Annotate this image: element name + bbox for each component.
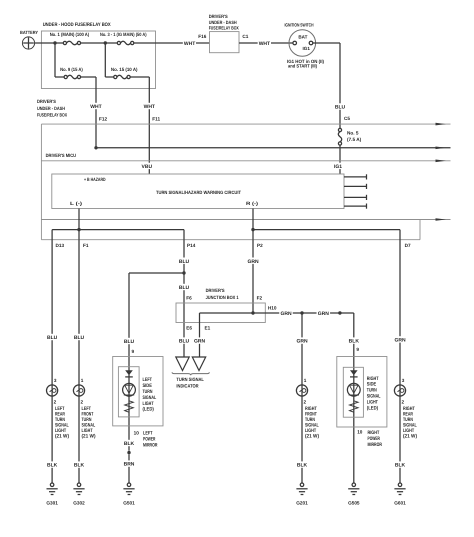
svg-text:(21 W): (21 W) [403, 434, 417, 440]
svg-text:G505: G505 [348, 500, 360, 505]
svg-text:TURN SIGNAL/HAZARD WARNING CIR: TURN SIGNAL/HAZARD WARNING CIRCUIT [156, 190, 241, 195]
svg-text:BLK: BLK [349, 339, 360, 345]
svg-text:F6: F6 [186, 296, 192, 301]
svg-text:TURN SIGNAL: TURN SIGNAL [176, 377, 204, 383]
svg-text:C1: C1 [242, 34, 248, 39]
svg-text:F12: F12 [99, 117, 107, 122]
svg-text:BLK: BLK [395, 463, 406, 469]
svg-text:BLK: BLK [297, 463, 308, 469]
svg-text:No. 3 - 1 (IG MAIN) (50 A): No. 3 - 1 (IG MAIN) (50 A) [100, 32, 147, 37]
svg-text:G601: G601 [394, 500, 406, 505]
svg-text:(LED): (LED) [367, 405, 379, 411]
svg-text:IG1: IG1 [302, 46, 310, 51]
svg-text:BLK: BLK [47, 463, 58, 469]
svg-text:GRN: GRN [318, 311, 330, 317]
svg-text:BLU: BLU [74, 335, 85, 341]
svg-text:MIRROR: MIRROR [368, 442, 383, 448]
svg-text:WHT: WHT [90, 104, 101, 110]
svg-text:FUSE/RELAY BOX: FUSE/RELAY BOX [37, 113, 68, 118]
svg-text:DRIVER'S: DRIVER'S [206, 288, 225, 293]
svg-text:GRN: GRN [394, 338, 406, 344]
svg-text:WHT: WHT [144, 104, 155, 110]
svg-text:UNDER - HOOD FUSE/RELAY BOX: UNDER - HOOD FUSE/RELAY BOX [43, 22, 112, 28]
svg-text:H10: H10 [268, 305, 277, 310]
svg-text:POWER: POWER [368, 436, 381, 442]
svg-text:G301: G301 [46, 500, 58, 505]
svg-text:GRN: GRN [247, 259, 259, 265]
svg-text:RIGHT: RIGHT [368, 430, 380, 436]
svg-text:2: 2 [81, 399, 84, 404]
svg-text:BRN: BRN [124, 462, 135, 468]
svg-text:BLU: BLU [179, 285, 190, 291]
svg-text:FUSE/RELAY BOX: FUSE/RELAY BOX [209, 26, 240, 31]
svg-text:F2: F2 [257, 296, 263, 301]
svg-text:F16: F16 [198, 34, 206, 39]
svg-text:DRIVER'S MICU: DRIVER'S MICU [46, 153, 77, 158]
svg-text:(LED): (LED) [143, 407, 155, 413]
svg-text:IGNITION SWITCH: IGNITION SWITCH [285, 22, 314, 27]
svg-text:E1: E1 [205, 325, 211, 330]
svg-text:UNDER - DASH: UNDER - DASH [209, 20, 237, 25]
svg-text:POWER: POWER [143, 436, 156, 442]
svg-text:E6: E6 [186, 325, 192, 330]
svg-text:P14: P14 [187, 243, 196, 248]
svg-text:F1: F1 [83, 243, 89, 248]
svg-text:MIRROR: MIRROR [143, 443, 158, 449]
svg-text:(7.5 A): (7.5 A) [347, 137, 362, 142]
svg-text:2: 2 [402, 399, 405, 404]
svg-text:3: 3 [54, 378, 57, 383]
svg-text:D7: D7 [405, 243, 411, 248]
svg-text:1: 1 [81, 378, 84, 383]
svg-text:VBU: VBU [142, 164, 153, 170]
svg-text:F11: F11 [152, 117, 160, 122]
svg-text:G501: G501 [123, 500, 135, 505]
svg-text:BLU: BLU [335, 105, 346, 111]
svg-text:UNDER - DASH: UNDER - DASH [37, 106, 65, 111]
svg-text:L (-): L (-) [70, 201, 83, 206]
svg-text:(21 W): (21 W) [305, 434, 319, 440]
svg-text:DRIVER'S: DRIVER'S [209, 14, 228, 19]
svg-text:and START (III): and START (III) [288, 64, 317, 69]
svg-text:JUNCTION BOX 1: JUNCTION BOX 1 [206, 295, 239, 300]
svg-text:BLU: BLU [179, 259, 190, 265]
svg-text:1: 1 [304, 378, 307, 383]
svg-text:9: 9 [356, 347, 359, 352]
svg-text:BLU: BLU [179, 339, 190, 345]
svg-text:C5: C5 [344, 116, 350, 121]
svg-text:3: 3 [402, 378, 405, 383]
svg-text:BLU: BLU [47, 335, 58, 341]
svg-text:BATTERY: BATTERY [20, 30, 38, 35]
svg-text:No. 1 (MAIN) (100 A): No. 1 (MAIN) (100 A) [50, 32, 90, 37]
svg-text:No. 15 (10 A): No. 15 (10 A) [111, 67, 138, 72]
svg-text:2: 2 [304, 399, 307, 404]
svg-text:GRN: GRN [280, 311, 292, 317]
svg-text:No. 5: No. 5 [347, 130, 359, 135]
svg-text:D13: D13 [56, 243, 65, 248]
svg-text:P2: P2 [257, 243, 263, 248]
svg-text:INDICATOR: INDICATOR [176, 384, 199, 390]
svg-text:BLK: BLK [124, 441, 135, 447]
svg-text:10: 10 [357, 430, 363, 435]
svg-text:+ B HAZARD: + B HAZARD [84, 177, 106, 182]
svg-text:GRN: GRN [194, 339, 206, 345]
svg-text:BAT: BAT [298, 34, 307, 39]
svg-text:2: 2 [54, 399, 57, 404]
svg-text:(21 W): (21 W) [82, 434, 96, 440]
svg-text:(21 W): (21 W) [55, 434, 69, 440]
svg-text:G201: G201 [296, 500, 308, 505]
svg-text:No. 9 (15 A): No. 9 (15 A) [60, 67, 83, 72]
svg-text:G302: G302 [73, 500, 85, 505]
svg-text:R (-): R (-) [246, 201, 259, 206]
svg-text:DRIVER'S: DRIVER'S [37, 99, 56, 104]
svg-text:WHT: WHT [259, 41, 270, 47]
svg-text:10: 10 [134, 431, 140, 436]
svg-text:IG1: IG1 [334, 164, 342, 170]
svg-text:WHT: WHT [184, 41, 195, 47]
svg-text:BLU: BLU [124, 339, 135, 345]
svg-text:LEFT: LEFT [143, 430, 153, 436]
svg-text:9: 9 [132, 349, 135, 354]
svg-text:BLK: BLK [74, 463, 85, 469]
svg-text:GRN: GRN [296, 339, 308, 345]
